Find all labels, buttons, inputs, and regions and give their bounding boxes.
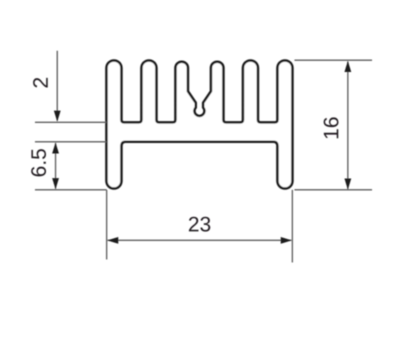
extension line F top right bbox=[294, 59, 372, 61]
extension line C left bottom bbox=[35, 189, 107, 191]
arrow 16 down bbox=[344, 179, 351, 190]
dim line 23 bbox=[108, 239, 292, 241]
arrow 23 left bbox=[107, 237, 118, 244]
arrow 6.5 down bbox=[52, 178, 59, 189]
arrow 16 up bbox=[344, 61, 351, 72]
extension line B base bottom bbox=[35, 141, 107, 143]
dim line 16 bbox=[347, 61, 349, 189]
extension line A base top bbox=[35, 121, 107, 123]
dim line 2 bbox=[56, 51, 58, 121]
arrow 2 down bbox=[54, 111, 61, 122]
label 16 bbox=[324, 117, 339, 138]
heatsink profile outline bbox=[106, 60, 292, 188]
label 6.5 bbox=[31, 149, 46, 176]
arrow 23 right bbox=[281, 237, 292, 244]
extension line E right vertical bbox=[291, 190, 293, 263]
arrow 6.5 up bbox=[52, 142, 59, 153]
extension line D left vertical bbox=[106, 190, 108, 260]
dim line 6.5 bbox=[55, 143, 57, 189]
label 2 bbox=[33, 78, 48, 88]
extension line G bottom right bbox=[294, 189, 372, 191]
label 23 bbox=[189, 217, 210, 232]
